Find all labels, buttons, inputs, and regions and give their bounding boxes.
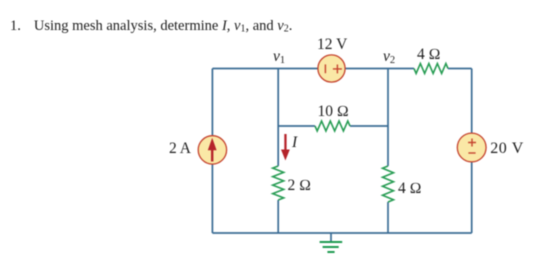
- ground: [320, 233, 343, 252]
- wire v1 vertical: [277, 69, 279, 167]
- wire middle branch: [278, 125, 315, 127]
- resistor 2ohm vertical: [273, 166, 284, 200]
- wire v2 vertical: [387, 69, 389, 167]
- wire middle branch right: [350, 125, 388, 127]
- resistor 10ohm: [315, 121, 350, 131]
- svg-text:4 Ω: 4 Ω: [417, 46, 441, 63]
- voltage source 20V circle: [457, 133, 486, 162]
- 20V plus: [468, 139, 476, 147]
- resistor 4ohm top: [414, 64, 448, 74]
- 20V minus: [468, 152, 475, 154]
- wire v2 vertical lower: [387, 202, 389, 233]
- wire top: [212, 68, 414, 70]
- wire bottom: [212, 232, 471, 234]
- svg-text:2 Ω: 2 Ω: [288, 177, 312, 194]
- svg-text:v2: v2: [383, 48, 395, 66]
- svg-text:2 A: 2 A: [169, 140, 192, 157]
- svg-text:12 V: 12 V: [317, 36, 348, 53]
- current source 2A circle: [198, 136, 226, 164]
- current I arrow: [281, 134, 290, 161]
- 12V minus bar: [324, 64, 326, 73]
- 2A arrow: [208, 138, 217, 162]
- wire right vertical: [471, 69, 473, 234]
- svg-text:I: I: [291, 134, 298, 151]
- wire top-right segment: [448, 68, 472, 70]
- svg-text:20 V: 20 V: [490, 140, 524, 157]
- svg-text:4 Ω: 4 Ω: [398, 180, 422, 197]
- voltage source 12V circle: [318, 55, 345, 82]
- svg-text:v1: v1: [273, 48, 285, 66]
- svg-text:10 Ω: 10 Ω: [318, 103, 349, 120]
- wire left vertical: [211, 69, 213, 234]
- title text: [10, 18, 292, 35]
- wire v1 vertical lower: [277, 200, 279, 233]
- 12V plus: [333, 65, 342, 74]
- resistor 4ohm vertical: [383, 166, 394, 202]
